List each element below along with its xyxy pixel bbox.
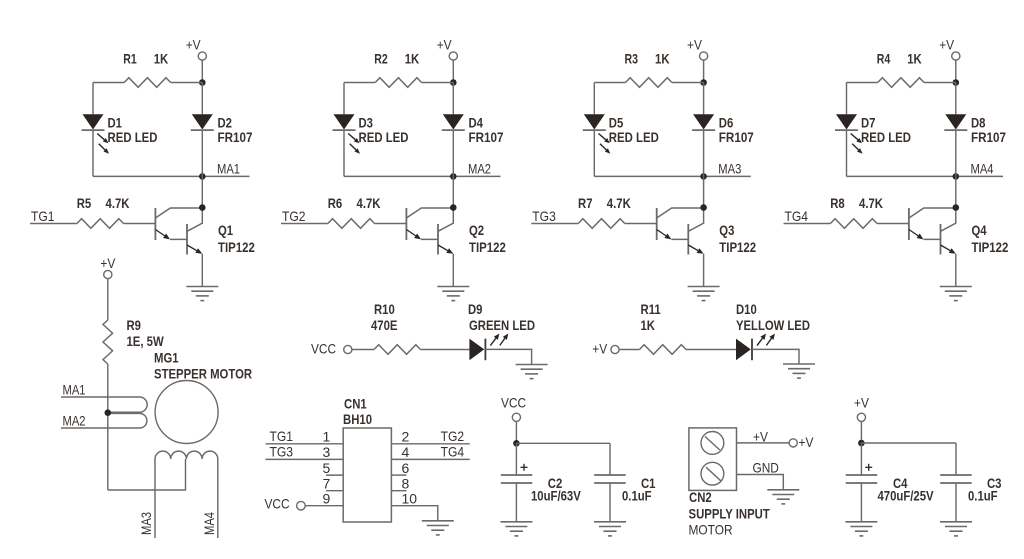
LED D7 RED LED [836,114,857,129]
svg-text:VCC: VCC [311,340,336,356]
svg-text:4.7K: 4.7K [106,195,130,211]
svg-text:MOTOR: MOTOR [689,521,733,537]
node TG4 (pin 4) [391,458,469,460]
transistor Q3 TIP122 darlington [656,208,658,240]
ground (C4) [845,521,877,523]
wire [955,83,957,115]
svg-text:R5: R5 [77,195,92,211]
svg-text:TIP122: TIP122 [218,239,255,255]
svg-text:TG1: TG1 [270,428,294,444]
wire [515,483,517,522]
wire [703,60,705,82]
svg-text:R4: R4 [877,50,891,66]
capacitor C2 10uF/63V [521,466,528,468]
svg-text:3: 3 [323,444,331,460]
junction dot collector [700,204,707,211]
ground (D9) [516,364,548,366]
wire [452,83,454,115]
svg-text:+V: +V [854,395,869,411]
resistor R11 1K [619,349,639,351]
svg-text:TIP122: TIP122 [469,239,506,255]
svg-text:Q2: Q2 [469,222,484,238]
svg-text:TG2: TG2 [441,428,465,444]
capacitor C4 470uF/25V [865,466,872,468]
resistor R6 4.7K [328,219,375,229]
wire center tap B [108,459,186,490]
svg-text:D9: D9 [468,301,483,317]
wire [485,349,531,364]
wire [343,130,345,177]
wire [201,83,203,115]
ground (CN1 pin 10) [422,520,454,522]
junction dot VCC [513,440,520,447]
svg-text:TG2: TG2 [282,208,306,224]
wire node MA4 [847,175,1004,177]
wire [343,83,345,115]
svg-text:+V: +V [799,434,814,450]
junction dot MA2 [450,173,457,180]
svg-text:R10: R10 [374,301,395,317]
ground (C2) [500,521,532,523]
svg-text:Q4: Q4 [972,222,987,238]
svg-text:MA1: MA1 [217,160,240,176]
pin 6 [391,474,406,476]
svg-text:RED LED: RED LED [861,129,911,145]
svg-text:5: 5 [323,460,331,476]
svg-text:+V: +V [753,428,768,444]
wire [421,349,470,351]
node +V junction dot [700,79,707,86]
wire [452,60,454,82]
wire [846,130,848,177]
LED D10 YELLOW LED [736,339,751,361]
junction dot +V [858,440,865,447]
resistor R2 1K [344,82,375,84]
motor winding A (MG1) [108,397,147,412]
junction dot center tap [105,409,112,416]
svg-text:RED LED: RED LED [609,129,659,145]
svg-text:TG4: TG4 [785,208,809,224]
svg-text:+V: +V [437,36,452,52]
resistor R7 4.7K [578,219,625,229]
svg-text:MA3: MA3 [718,160,741,176]
wire [452,176,454,207]
svg-text:FR107: FR107 [719,129,754,145]
ground (D10) [783,363,815,365]
wire [452,254,454,287]
svg-text:R11: R11 [641,301,661,317]
svg-text:1K: 1K [655,50,670,66]
LED D9 GREEN LED [469,339,484,361]
svg-text:4.7K: 4.7K [859,195,883,211]
junction dot collector [199,204,206,211]
wire [955,176,957,207]
resistor R9 1E, 5W [103,320,113,364]
junction dot MA1 [199,173,206,180]
svg-text:R9: R9 [127,317,142,333]
wire [201,130,203,177]
svg-text:4.7K: 4.7K [607,195,631,211]
wire [107,364,109,490]
wire [593,130,595,177]
svg-text:MA2: MA2 [468,160,491,176]
wire [955,130,957,177]
junction dot MA3 [700,173,707,180]
svg-text:4.7K: 4.7K [357,195,381,211]
diode D8 FR107 [945,114,966,129]
svg-text:10: 10 [402,490,418,506]
resistor R3 1K [594,82,625,84]
wire [861,442,956,444]
pin 8 [391,490,406,492]
svg-text:VCC: VCC [501,395,526,411]
junction dot MA4 [953,173,960,180]
svg-text:RED LED: RED LED [108,129,158,145]
svg-text:9: 9 [323,490,331,506]
svg-text:GREEN LED: GREEN LED [469,317,535,333]
resistor R10 470E [352,349,374,351]
pin 5 [326,474,343,476]
wire node MA1 [93,175,250,177]
wire [846,83,848,115]
wire node MA2 [344,175,501,177]
wire [703,254,705,287]
svg-text:TG4: TG4 [441,443,465,459]
ground (Q2 emitter) [437,286,469,288]
capacitor C3 0.1uF [955,443,957,475]
LED D5 RED LED [584,114,605,129]
svg-text:0.1uF: 0.1uF [622,488,652,504]
ground (C3) [940,521,972,523]
wire [201,176,203,207]
svg-text:R3: R3 [625,50,639,66]
svg-text:RED LED: RED LED [359,129,409,145]
svg-text:MA1: MA1 [63,381,86,397]
svg-text:1K: 1K [641,317,656,333]
svg-text:R7: R7 [578,195,593,211]
junction dot collector [450,204,457,211]
svg-text:SUPPLY INPUT: SUPPLY INPUT [689,505,771,521]
svg-text:Q3: Q3 [719,222,734,238]
node +V junction dot [199,79,206,86]
pin 7 [326,490,343,492]
svg-text:1E, 5W: 1E, 5W [127,333,165,349]
wire [107,279,109,320]
transistor Q2 TIP122 darlington [405,208,407,240]
wire [703,130,705,177]
wire [860,421,862,443]
ground (Q3 emitter) [688,286,720,288]
svg-text:R1: R1 [123,50,137,66]
wire [860,443,862,475]
svg-text:GND: GND [753,460,779,476]
svg-text:MA4: MA4 [201,512,217,535]
pin 10 [391,506,437,521]
svg-text:1K: 1K [405,50,420,66]
wire [92,83,94,115]
wire [201,60,203,82]
wire [860,483,862,522]
svg-text:+V: +V [592,340,607,356]
wire [452,130,454,177]
svg-text:MA3: MA3 [138,512,154,535]
svg-text:CN2: CN2 [689,489,712,505]
svg-text:10uF/63V: 10uF/63V [531,488,581,504]
junction dot collector [953,204,960,211]
svg-text:FR107: FR107 [971,129,1006,145]
wire [752,349,799,364]
svg-text:4: 4 [402,444,410,460]
LED D1 RED LED [83,114,104,129]
wire [92,130,94,177]
node TG2 (pin 2) [391,443,469,445]
resistor R1 1K [93,82,124,84]
svg-text:STEPPER MOTOR: STEPPER MOTOR [154,366,252,382]
diode D4 FR107 [443,114,464,129]
ground (C1) [594,521,626,523]
svg-text:TG1: TG1 [31,208,55,224]
motor winding B (MG1) [155,451,218,459]
svg-text:FR107: FR107 [469,129,504,145]
resistor R5 4.7K [77,219,124,229]
wire node MA4 [217,459,219,538]
svg-text:R8: R8 [830,195,845,211]
svg-text:YELLOW LED: YELLOW LED [736,317,810,333]
connector CN2 screw terminal [689,428,737,491]
svg-text:+V: +V [687,36,702,52]
wire [515,421,517,443]
wire [686,349,736,351]
svg-text:+V: +V [939,36,954,52]
svg-text:Q1: Q1 [218,222,233,238]
wire node MA3 [154,459,156,538]
svg-text:470uF/25V: 470uF/25V [878,488,935,504]
wire MA1 [61,396,140,398]
svg-text:D10: D10 [736,301,757,317]
wire [201,254,203,287]
svg-text:TIP122: TIP122 [972,239,1009,255]
svg-text:470E: 470E [371,317,398,333]
wire [703,176,705,207]
svg-text:MG1: MG1 [154,350,179,366]
ground (CN2) [767,489,799,491]
svg-text:CN1: CN1 [344,396,367,412]
svg-text:TG3: TG3 [532,208,556,224]
transistor Q1 TIP122 darlington [154,208,156,240]
svg-text:R2: R2 [374,50,388,66]
svg-text:+V: +V [186,36,201,52]
wire [515,443,517,475]
node +V junction dot [450,79,457,86]
svg-text:1: 1 [323,429,331,445]
wire [609,483,611,522]
svg-text:7: 7 [323,475,331,491]
wire node MA3 [594,175,751,177]
wire [955,254,957,287]
svg-text:8: 8 [402,475,410,491]
svg-text:MA2: MA2 [63,412,86,428]
svg-text:1K: 1K [154,50,169,66]
resistor R4 1K [847,82,878,84]
diode D6 FR107 [693,114,714,129]
ground (Q4 emitter) [940,286,972,288]
svg-text:1K: 1K [907,50,922,66]
svg-text:+V: +V [100,255,115,271]
LED D3 RED LED [334,114,355,129]
wire [955,483,957,522]
motor body MG1 [155,381,218,444]
svg-text:MA4: MA4 [971,160,994,176]
svg-text:2: 2 [402,429,410,445]
capacitor C1 0.1uF [609,443,611,475]
ground (Q1 emitter) [186,286,218,288]
node +V junction dot [953,79,960,86]
diode D2 FR107 [192,114,213,129]
wire [593,83,595,115]
svg-text:TIP122: TIP122 [719,239,756,255]
svg-text:6: 6 [402,460,410,476]
resistor R8 4.7K [830,219,877,229]
svg-text:BH10: BH10 [343,411,372,427]
wire [703,83,705,115]
svg-text:TG3: TG3 [270,443,294,459]
svg-text:FR107: FR107 [218,129,253,145]
svg-text:VCC: VCC [265,496,290,512]
wire [516,442,610,444]
svg-text:R6: R6 [328,195,343,211]
svg-text:0.1uF: 0.1uF [968,488,998,504]
wire [955,60,957,82]
transistor Q4 TIP122 darlington [908,208,910,240]
